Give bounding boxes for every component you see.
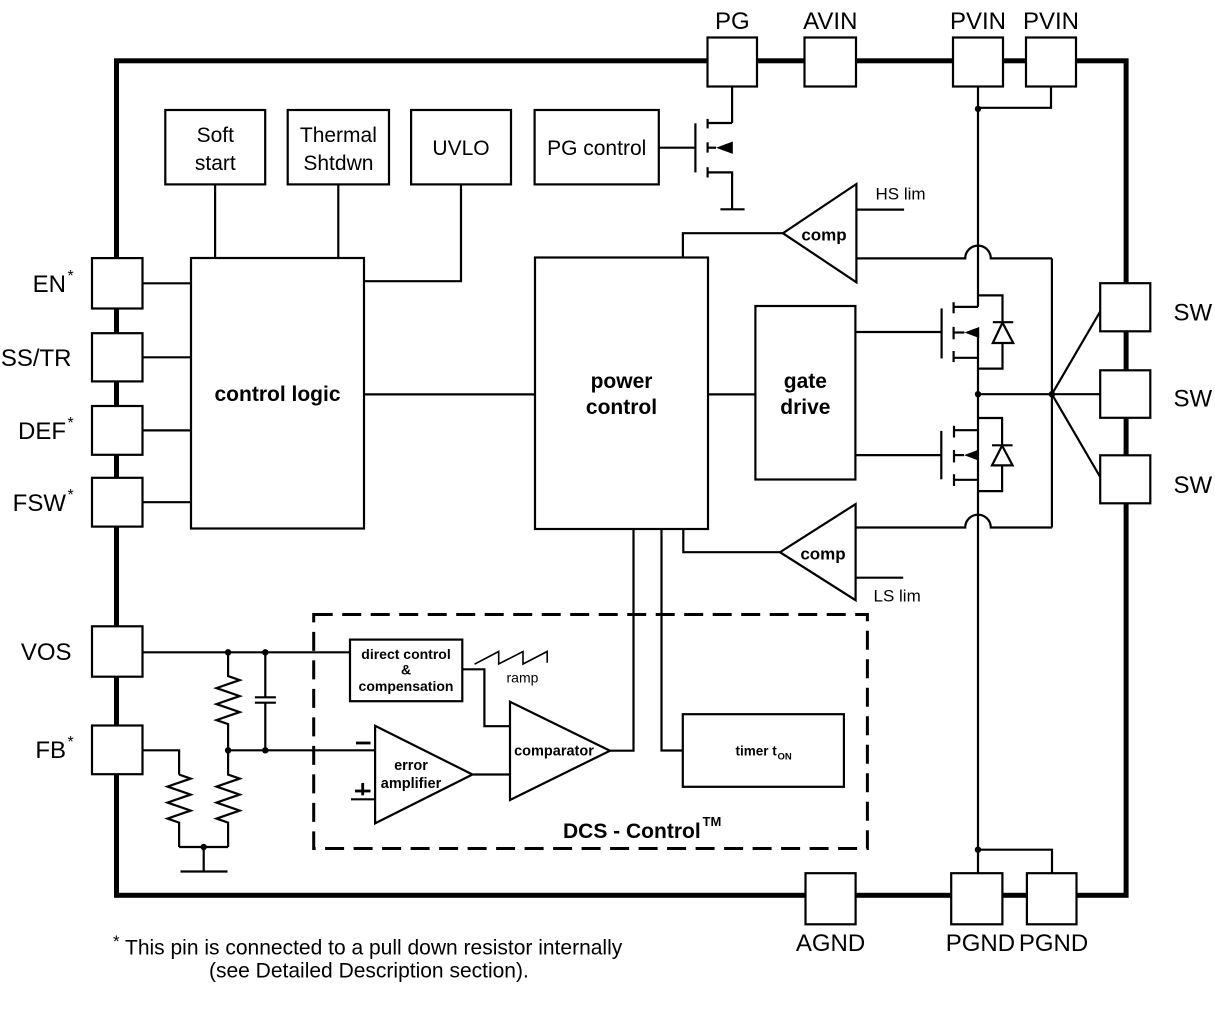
svg-text:power: power: [591, 370, 653, 393]
wire fan to SW3: [1052, 394, 1100, 477]
wire direct control to comparator: [462, 669, 510, 726]
node FB-R junction: [225, 747, 231, 753]
pin DEF: [18, 406, 143, 455]
box power control: [535, 258, 708, 530]
op-amp error amplifier: [375, 726, 472, 824]
svg-text:*: *: [68, 487, 74, 504]
pin SS/TR: [1, 333, 143, 381]
ramp sawtooth symbol: [475, 652, 548, 665]
transistor LS mosfet: [941, 426, 978, 486]
wire FSW pin to control logic: [143, 501, 192, 503]
svg-text:Shtdwn: Shtdwn: [303, 152, 373, 175]
node ground junction: [201, 844, 207, 850]
outer IC boundary border: [117, 61, 1127, 896]
comparator LS comp: [780, 504, 856, 600]
svg-text:SW: SW: [1174, 300, 1213, 327]
svg-text:PGND: PGND: [946, 930, 1015, 957]
svg-text:PVIN: PVIN: [950, 8, 1006, 35]
resistor R1 top divider: [217, 652, 240, 750]
svg-text:control logic: control logic: [215, 383, 341, 406]
svg-text:comp: comp: [801, 226, 846, 245]
svg-text:UVLO: UVLO: [432, 137, 489, 160]
svg-text:comp: comp: [800, 545, 845, 564]
box gate drive: [755, 306, 855, 480]
pin SW top: [1100, 283, 1212, 331]
wire SW node to fan point: [978, 393, 1052, 395]
transistor PG pass FET: [695, 119, 744, 209]
node VOS-R1 junction: [225, 649, 231, 655]
wire PVIN1 pin down to node: [977, 87, 979, 307]
wire LS current limit input from SW node with hop: [856, 515, 1052, 528]
pin FB: [35, 726, 142, 775]
svg-text:AGND: AGND: [796, 930, 865, 957]
dashed DCS-Control boundary: [314, 615, 868, 849]
pin FSW: [13, 478, 143, 527]
pin EN: [33, 258, 143, 308]
svg-text:TM: TM: [703, 814, 722, 829]
wire fan to SW2: [1052, 393, 1100, 395]
svg-text:*: *: [68, 415, 74, 432]
wire control logic to power control: [364, 393, 535, 395]
svg-text:start: start: [195, 152, 236, 175]
capacitor C1 feedforward: [255, 652, 276, 750]
box UVLO: [411, 110, 511, 184]
node PGND junction: [975, 847, 981, 853]
node PVIN junction: [975, 106, 981, 112]
svg-text:*: *: [68, 734, 74, 751]
diode LS body diode: [978, 418, 1013, 491]
wire power control to gate drive: [708, 393, 755, 395]
svg-text:control: control: [586, 396, 657, 419]
diode HS body diode: [978, 295, 1013, 368]
box timer tON: [683, 714, 844, 787]
svg-text:SW: SW: [1174, 472, 1213, 499]
pin SW bottom: [1100, 455, 1212, 503]
svg-text:amplifier: amplifier: [381, 776, 442, 792]
svg-text:PVIN: PVIN: [1023, 8, 1079, 35]
wire plus input stub: [351, 798, 375, 800]
wire SS/TR pin to control logic: [143, 356, 192, 358]
wire switch node vertical PVIN to PGND: [977, 333, 979, 874]
svg-text:DEF: DEF: [18, 418, 66, 445]
wire PG control to pass transistor gate: [659, 147, 696, 149]
wire soft start to control logic: [214, 184, 216, 258]
svg-text:*: *: [68, 268, 74, 285]
comparator HS comp: [783, 184, 857, 282]
wire thermal shutdown to control logic: [337, 184, 339, 258]
svg-text:PG: PG: [715, 8, 750, 35]
svg-text:EN: EN: [33, 271, 66, 298]
label minus input: [356, 742, 371, 745]
svg-text:SW: SW: [1174, 386, 1213, 413]
box soft start: [165, 110, 265, 184]
svg-text:*: *: [113, 932, 120, 951]
pin VOS: [21, 626, 143, 676]
wire PG pin to transistor drain: [731, 87, 733, 124]
svg-text:timer t: timer t: [736, 744, 778, 759]
box direct control and compensation: [350, 640, 462, 702]
svg-text:ON: ON: [778, 752, 792, 763]
svg-text:Thermal: Thermal: [300, 124, 377, 147]
wire PGND branch to PGND2: [978, 850, 1052, 874]
pin AVIN: [803, 8, 857, 87]
wire fan to SW1: [1052, 312, 1100, 395]
svg-text:drive: drive: [780, 396, 830, 419]
wire sense rail vertical at SW fan column: [1051, 258, 1053, 527]
transistor HS mosfet: [942, 302, 980, 362]
svg-text:FB: FB: [35, 737, 66, 764]
wire feedback line to error amplifier minus: [228, 749, 375, 751]
svg-text:VOS: VOS: [21, 639, 72, 666]
resistor R2 bottom divider: [217, 750, 240, 847]
svg-text:PGND: PGND: [1019, 930, 1088, 957]
wire EN pin to control logic: [143, 282, 192, 284]
svg-text:This pin is connected to a pul: This pin is connected to a pull down res…: [125, 937, 623, 960]
wire error amplifier output: [473, 773, 511, 775]
wire LS comp output to power control: [683, 529, 780, 552]
svg-text:HS lim: HS lim: [876, 185, 926, 204]
comparator main PWM comparator: [510, 702, 610, 800]
svg-text:(see Detailed Description sect: (see Detailed Description section).: [209, 960, 529, 983]
wire HS current limit input from SW node with hop: [856, 246, 1052, 259]
wire LS lim stub: [856, 577, 904, 579]
svg-text:&: &: [401, 662, 411, 678]
wire gate drive to HS mosfet gate: [855, 331, 941, 333]
pin PG: [708, 8, 758, 87]
svg-text:ramp: ramp: [507, 670, 539, 686]
svg-text:AVIN: AVIN: [803, 8, 857, 35]
svg-text:error: error: [394, 758, 428, 774]
pin PGND right: [1019, 873, 1088, 957]
wire gate drive to LS mosfet gate: [855, 454, 941, 456]
resistor R3 FB internal pulldown: [168, 775, 191, 847]
box control logic: [191, 258, 364, 529]
label plus input: [355, 783, 371, 795]
node FB-C junction: [262, 747, 268, 753]
svg-text:LS lim: LS lim: [874, 587, 921, 606]
node VOS-C1 junction: [262, 649, 268, 655]
wire UVLO to control logic: [364, 184, 461, 281]
node SW fan point: [1049, 391, 1055, 397]
svg-text:PG control: PG control: [547, 137, 646, 160]
wire comparator output to power control: [610, 529, 634, 751]
svg-text:compensation: compensation: [359, 678, 454, 694]
wire FB pin stub: [143, 750, 180, 774]
pin PVIN right: [1023, 8, 1079, 87]
pin SW middle: [1100, 370, 1212, 418]
box PG control: [535, 110, 659, 184]
svg-text:comparator: comparator: [514, 744, 594, 760]
pin PGND left: [946, 873, 1015, 957]
wire DEF pin to control logic: [143, 429, 192, 431]
box thermal shutdown: [288, 110, 389, 184]
wire PVIN2 pin to PVIN node: [978, 87, 1051, 108]
pin AGND: [796, 873, 865, 957]
svg-text:direct control: direct control: [361, 646, 450, 662]
wire power control to timer: [662, 529, 683, 751]
svg-text:FSW: FSW: [13, 490, 67, 517]
pin PVIN left: [950, 8, 1006, 87]
ground: [181, 847, 228, 872]
wire resistor bottoms junction: [179, 846, 228, 848]
svg-text:SS/TR: SS/TR: [1, 345, 72, 372]
svg-text:gate: gate: [784, 370, 827, 393]
wire HS comp output to power control: [683, 233, 783, 257]
node SW junction: [975, 391, 981, 397]
svg-text:DCS - Control: DCS - Control: [563, 820, 701, 843]
wire VOS line to direct control: [143, 651, 351, 653]
svg-text:Soft: Soft: [197, 124, 235, 147]
wire HS lim stub: [856, 209, 904, 211]
